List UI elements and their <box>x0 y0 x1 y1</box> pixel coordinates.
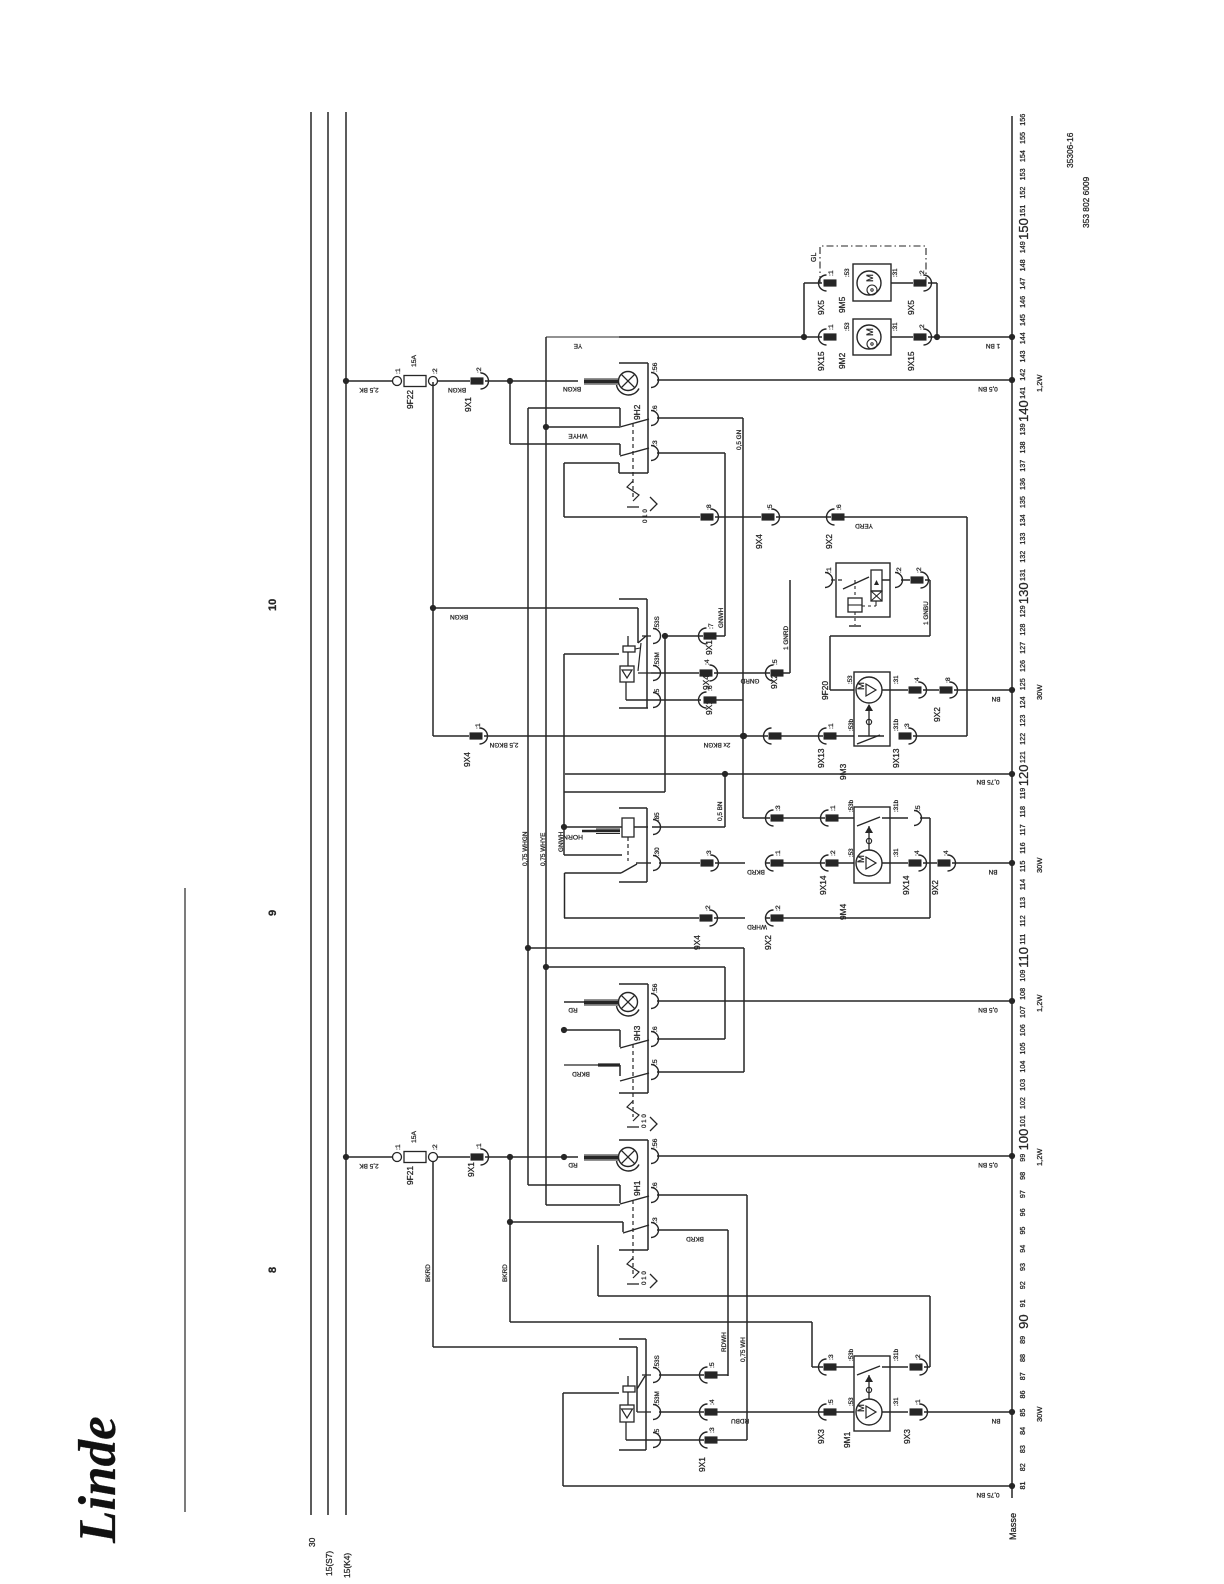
pin :5 row818 <box>914 811 922 826</box>
svg-text:9X1: 9X1 <box>463 397 473 412</box>
relay diode box <box>871 591 882 601</box>
svg-text:30: 30 <box>307 1537 317 1547</box>
wire to 9H2 lamp <box>510 380 578 382</box>
washer pump box bottom <box>620 1405 634 1422</box>
svg-text:1 GNBU: 1 GNBU <box>923 601 930 625</box>
connector 9X3:3 <box>824 1363 837 1370</box>
svg-text::53b: :53b <box>848 799 855 812</box>
row 792 <box>564 791 665 793</box>
pin :56 9H2 <box>651 373 659 388</box>
svg-text::1: :1 <box>395 1144 402 1150</box>
junction row774 <box>722 771 728 777</box>
wire 9H3:56 to masse <box>657 1000 1012 1002</box>
svg-text:153: 153 <box>1018 168 1027 180</box>
washer gnd row 654 <box>564 653 619 655</box>
svg-text:119: 119 <box>1018 788 1027 799</box>
svg-text:142: 142 <box>1018 369 1027 381</box>
svg-text:86: 86 <box>1018 1390 1027 1398</box>
wire bus to fuse 9F21 <box>346 1156 392 1158</box>
svg-text::8: :8 <box>945 677 952 683</box>
row 967 to 9H3:6 <box>546 966 725 968</box>
svg-text::2: :2 <box>432 1144 439 1150</box>
svg-text::56: :56 <box>652 1138 659 1148</box>
svg-text:122: 122 <box>1018 733 1027 745</box>
rail WHGN-left lower <box>564 873 566 918</box>
9M4 park contact arm <box>857 817 880 826</box>
riser BKRD from 9F21 <box>432 1162 434 1347</box>
svg-text:9X1: 9X1 <box>704 640 714 655</box>
svg-text::6: :6 <box>652 1026 659 1032</box>
svg-text::1: :1 <box>828 324 835 330</box>
svg-text:90: 90 <box>1016 1314 1031 1328</box>
connector 9X5:2 <box>914 279 927 286</box>
pin :5 bottom <box>653 1433 661 1448</box>
svg-text:9X13: 9X13 <box>891 748 901 768</box>
svg-text:124: 124 <box>1018 696 1027 708</box>
switch arm throw <box>638 643 641 671</box>
svg-text::31b: :31b <box>893 799 900 812</box>
svg-text:9X5: 9X5 <box>816 300 826 315</box>
pin :1 9F20 <box>825 573 833 588</box>
svg-text:9H3: 9H3 <box>632 1025 642 1041</box>
svg-text::31: :31 <box>893 848 900 857</box>
wire 9H2:6 right <box>657 417 743 419</box>
svg-text:128: 128 <box>1018 624 1027 636</box>
switch unit 9H1 bracket <box>619 1139 648 1141</box>
wiper motor 9M3 box <box>854 672 890 746</box>
connector 9X1:6 <box>704 696 717 703</box>
feed arm2 9H1 <box>510 1221 623 1223</box>
svg-text:9X5: 9X5 <box>906 300 916 315</box>
svg-text:121: 121 <box>1018 751 1027 763</box>
svg-text:BKGN: BKGN <box>563 385 581 392</box>
svg-text:2,5 BK: 2,5 BK <box>359 386 379 393</box>
svg-text::2: :2 <box>476 367 483 373</box>
svg-text:111: 111 <box>1018 934 1027 945</box>
svg-text:0 1 0: 0 1 0 <box>641 1114 648 1128</box>
svg-text:M: M <box>856 855 867 863</box>
svg-text:9X2: 9X2 <box>930 880 940 895</box>
junction 53S node <box>662 633 668 639</box>
svg-text:140: 140 <box>1016 400 1031 422</box>
svg-text:144: 144 <box>1018 332 1027 344</box>
riser 9M1:2 <box>929 1296 931 1367</box>
svg-text:RD: RD <box>568 1006 578 1013</box>
pin :3 9H1 <box>651 1223 659 1238</box>
junction on riser at row 736 <box>740 733 746 739</box>
junction WHYE tap <box>543 424 549 430</box>
connector 9X2:5 <box>771 669 784 676</box>
svg-text:0,5 BN: 0,5 BN <box>978 1161 998 1168</box>
connector 9X1:7 <box>704 632 717 639</box>
svg-text:2,5 BKGN: 2,5 BKGN <box>489 741 518 748</box>
connector 9X13:3 <box>899 732 912 739</box>
connector 9X2:8 <box>940 686 953 693</box>
svg-text:108: 108 <box>1018 988 1027 1000</box>
svg-text:91: 91 <box>1018 1299 1027 1307</box>
svg-text:RDWH: RDWH <box>721 1332 728 1352</box>
switch arm 53S bottom <box>637 1376 645 1389</box>
svg-text:125: 125 <box>1018 678 1027 690</box>
svg-text:1,2W: 1,2W <box>1035 374 1044 392</box>
svg-text:9X14: 9X14 <box>901 875 911 895</box>
9H2 contact arm 2 <box>620 448 649 456</box>
junction masse row 690 <box>1009 687 1015 693</box>
pin :5 9H3 <box>651 1065 659 1080</box>
junction rail arm1 9H3 <box>561 1027 567 1033</box>
svg-text::8: :8 <box>706 504 713 510</box>
svg-text::53: :53 <box>847 675 854 684</box>
svg-text:0,5 BN: 0,5 BN <box>717 801 724 821</box>
connector pin :3 row863 <box>701 859 714 866</box>
svg-text:151: 151 <box>1018 205 1027 217</box>
pull actuator rect <box>623 646 635 652</box>
connector 9X3:1 <box>910 1408 923 1415</box>
svg-text:353 802 6009: 353 802 6009 <box>1081 176 1091 228</box>
horn button unit bracket <box>619 807 647 809</box>
svg-text:150: 150 <box>1016 218 1031 240</box>
svg-text:133: 133 <box>1018 533 1027 545</box>
wiper motor 9M4 box <box>854 807 890 883</box>
row 517 left <box>564 516 700 518</box>
svg-text::3: :3 <box>828 1354 835 1360</box>
svg-text:9F21: 9F21 <box>405 1166 415 1185</box>
wire 9H1:6 <box>657 1194 747 1196</box>
rail segment row463-row517 <box>563 463 565 517</box>
wire 9H3:5 <box>657 1071 744 1073</box>
9H3 contact arm 2 <box>620 1073 649 1081</box>
motor 9M1 circle <box>856 1399 882 1425</box>
masse bus <box>1011 116 1013 1498</box>
connector 9X3:5 <box>824 1408 837 1415</box>
connector 9X3:2 <box>910 1363 923 1370</box>
wire 9F22 to 9X1:2 <box>437 380 470 382</box>
svg-text:156: 156 <box>1018 114 1027 126</box>
drop 1 GNBU <box>929 580 931 636</box>
riser to 9H3:6 <box>724 967 726 1039</box>
riser row517 to 9X13:3 <box>966 517 968 736</box>
svg-text::2: :2 <box>919 324 926 330</box>
relay timer element <box>871 570 882 591</box>
drop 9M5 to 9M2 row <box>936 283 938 337</box>
riser BKGN from 9F22 <box>432 382 434 736</box>
connector 9X1:1 <box>471 1153 484 1160</box>
svg-text:148: 148 <box>1018 259 1027 271</box>
svg-text:146: 146 <box>1018 296 1027 308</box>
svg-text:152: 152 <box>1018 187 1027 199</box>
junction 9M2/9M5 split <box>801 334 807 340</box>
wire washer gnd <box>563 1392 619 1394</box>
leader YE <box>546 336 619 338</box>
connector 9X1:2 <box>471 377 484 384</box>
svg-text::1: :1 <box>830 805 837 811</box>
connector pin :1 row863 <box>771 859 784 866</box>
svg-text::4: :4 <box>914 677 921 683</box>
connector 9X13:1 <box>824 732 837 739</box>
svg-text:1,2W: 1,2W <box>1035 994 1044 1012</box>
svg-text::31b: :31b <box>893 718 900 731</box>
connector 9X14:2 <box>826 859 839 866</box>
svg-text::2: :2 <box>830 850 837 856</box>
svg-text:93: 93 <box>1018 1263 1027 1271</box>
riser GNWH <box>724 453 726 636</box>
svg-text:9X4: 9X4 <box>754 534 764 549</box>
svg-text:9X2: 9X2 <box>769 674 779 689</box>
svg-text::5: :5 <box>654 1428 661 1434</box>
connector 9X1:3 <box>705 1436 718 1443</box>
svg-text::2: :2 <box>896 567 903 573</box>
pin :56 9H3 <box>651 994 659 1009</box>
svg-text::2: :2 <box>919 270 926 276</box>
wire 9H2:3 right <box>657 452 725 454</box>
svg-text:131: 131 <box>1018 569 1027 581</box>
junction BKGN row 608 <box>430 605 436 611</box>
9H3 contact arm 1 <box>620 1040 649 1048</box>
relay contact arm <box>843 577 869 589</box>
svg-text:127: 127 <box>1018 642 1027 654</box>
svg-text:YE: YE <box>574 342 583 349</box>
connector 9X14:4 <box>909 859 922 866</box>
svg-text::2: :2 <box>705 905 712 911</box>
connector 9X1:5 <box>705 1371 718 1378</box>
svg-text:0 1 0: 0 1 0 <box>642 509 649 523</box>
svg-text::53M: :53M <box>654 652 661 666</box>
connector 9X1:4 <box>705 1408 718 1415</box>
junction node after 9X1:2 <box>507 378 513 384</box>
svg-text:0,5 BN: 0,5 BN <box>978 385 998 392</box>
switch unit 9H3 bracket <box>619 983 648 985</box>
9H1 contact arm 1 <box>620 1196 649 1204</box>
svg-text:0,5 BN: 0,5 BN <box>978 1006 998 1013</box>
connector 9X2:6 <box>832 513 845 520</box>
pin :53S <box>653 629 661 644</box>
wire to horn actuator <box>564 826 622 828</box>
motor 9M5 circle <box>857 271 881 295</box>
9H3 actuator dashed link <box>632 1044 634 1117</box>
svg-text::5: :5 <box>828 1399 835 1405</box>
svg-text:GL: GL <box>811 253 818 262</box>
bus 15(S7) <box>327 112 329 1515</box>
svg-text:94: 94 <box>1018 1245 1027 1253</box>
svg-text::4: :4 <box>709 1399 716 1405</box>
9M1 park contact arm <box>857 1366 880 1375</box>
svg-text:9X3: 9X3 <box>816 1429 826 1444</box>
junction bus 15(K4) to 9F21 <box>343 1154 349 1160</box>
junction 9M5 return <box>934 334 940 340</box>
9H1 contact arm 2 <box>623 1225 649 1233</box>
svg-text::3: :3 <box>775 805 782 811</box>
row 818 from GN riser <box>743 817 770 819</box>
svg-text:9X15: 9X15 <box>906 351 916 371</box>
svg-text:HORN: HORN <box>563 833 583 840</box>
rail WHGN-left upper <box>563 654 565 855</box>
9H3 lamp lead <box>584 999 619 1001</box>
9H3 arm2 feed <box>564 1064 598 1066</box>
junction masse row 380 <box>1009 377 1015 383</box>
connector 9X2:2 <box>911 576 924 583</box>
pin :53M bottom <box>653 1405 661 1420</box>
row 948 to 9H3:5 <box>528 947 744 949</box>
svg-text:130: 130 <box>1016 582 1031 604</box>
svg-text:WHYE: WHYE <box>568 432 587 439</box>
svg-text::85: :85 <box>654 812 661 821</box>
horn dashed link <box>627 837 629 861</box>
wire 53M to 9X4:4 <box>651 672 699 674</box>
link <box>627 636 629 646</box>
svg-text:BKGN: BKGN <box>448 386 466 393</box>
connector 9X4:2 <box>700 914 713 921</box>
switch unit 9H2 bracket <box>619 362 648 364</box>
svg-text::6: :6 <box>707 685 714 691</box>
horn contact arm <box>621 864 637 873</box>
svg-text::2: :2 <box>915 1354 922 1360</box>
junction masse row 1486 <box>1009 1483 1015 1489</box>
pin :53M <box>653 666 661 681</box>
connector 9X15:2 <box>914 333 927 340</box>
drop to 9M3:53 <box>829 636 831 690</box>
drop 53S to row792 <box>664 637 666 792</box>
svg-text:9X14: 9X14 <box>818 875 828 895</box>
svg-text:0,75 WH: 0,75 WH <box>740 1337 747 1362</box>
feed arm1 9H1 a <box>528 1184 620 1186</box>
connector pin :3 row818 <box>771 814 784 821</box>
svg-text:123: 123 <box>1018 715 1027 727</box>
svg-text::53: :53 <box>844 268 851 277</box>
junction row 1222 <box>507 1219 513 1225</box>
junction masse row 1156 <box>1009 1153 1015 1159</box>
svg-text:9X15: 9X15 <box>816 351 826 371</box>
relay link dash <box>854 580 856 598</box>
9H1 lamp lead <box>584 1154 619 1156</box>
junction masse row 1001 <box>1009 998 1015 1004</box>
svg-text:9M1: 9M1 <box>842 1431 852 1448</box>
svg-text:0,75 WHGN: 0,75 WHGN <box>522 831 529 866</box>
svg-text:GNWH: GNWH <box>718 607 725 628</box>
svg-text:BKRD: BKRD <box>502 1264 509 1282</box>
svg-text:9X1: 9X1 <box>704 700 714 715</box>
svg-text::2: :2 <box>432 368 439 374</box>
junction rail to horn <box>561 824 567 830</box>
svg-text::31: :31 <box>893 1397 900 1406</box>
9H2 detent symbol <box>627 481 639 501</box>
svg-text::56: :56 <box>652 983 659 993</box>
svg-text:9X13: 9X13 <box>816 748 826 768</box>
svg-text:117: 117 <box>1018 824 1027 835</box>
riser right 9M4 <box>929 818 931 918</box>
svg-text:BKRD: BKRD <box>572 1070 590 1077</box>
wire 9H2:56 to masse <box>657 379 1012 381</box>
connector 9X2:4 <box>938 859 951 866</box>
svg-text::53: :53 <box>844 322 851 331</box>
svg-text:120: 120 <box>1016 764 1031 786</box>
park row inside 9M3 <box>858 735 884 737</box>
svg-text:106: 106 <box>1018 1024 1027 1036</box>
svg-text::31: :31 <box>893 675 900 684</box>
9H2 contact arm 1 <box>620 419 649 427</box>
svg-text:9F22: 9F22 <box>405 390 415 409</box>
svg-text:154: 154 <box>1018 150 1027 162</box>
svg-text:118: 118 <box>1018 806 1027 817</box>
svg-text:15A: 15A <box>411 1130 418 1143</box>
9M4 shaft link <box>868 826 870 850</box>
lamp 9H3 <box>619 993 638 1012</box>
connector 9X4:4 <box>700 669 713 676</box>
svg-text::1: :1 <box>476 1143 483 1149</box>
svg-text:110: 110 <box>1016 947 1031 968</box>
riser RDWH <box>727 1230 729 1376</box>
9H1 actuator dashed link <box>632 1200 634 1274</box>
pin :6 9H2 <box>651 411 659 426</box>
svg-text::53S: :53S <box>654 616 661 629</box>
svg-text:BKRD: BKRD <box>747 868 765 875</box>
leg to washer 53M <box>636 1347 638 1412</box>
svg-text::6: :6 <box>836 504 843 510</box>
svg-text:9H2: 9H2 <box>632 404 642 420</box>
svg-text:0,75 WHYE: 0,75 WHYE <box>540 833 547 866</box>
svg-text::53S: :53S <box>654 1355 661 1368</box>
svg-text:92: 92 <box>1018 1281 1027 1289</box>
stub row 463 <box>564 462 619 464</box>
connector 9X15:1 <box>824 333 837 340</box>
pin :30 horn <box>653 856 661 871</box>
link 0,5 BN to horn 85 <box>724 774 726 827</box>
svg-text:RDBU: RDBU <box>731 1417 749 1424</box>
junction rail/row948 <box>525 945 531 951</box>
svg-text:M: M <box>856 1404 867 1412</box>
row 1296 <box>598 1295 930 1297</box>
svg-text::3: :3 <box>709 1427 716 1433</box>
svg-text::31: :31 <box>892 268 899 277</box>
svg-text:1,2W: 1,2W <box>1035 1148 1044 1166</box>
svg-text:104: 104 <box>1018 1061 1027 1073</box>
svg-text:105: 105 <box>1018 1042 1027 1054</box>
riser 1 GNRD to relay <box>789 580 791 673</box>
svg-text:30W: 30W <box>1035 684 1044 700</box>
row 1322 <box>510 1321 812 1323</box>
pin :3 9H2 <box>651 446 659 461</box>
svg-text::31b: :31b <box>893 1348 900 1361</box>
svg-text:135: 135 <box>1018 496 1027 508</box>
svg-text:RD: RD <box>568 1161 578 1168</box>
svg-text:95: 95 <box>1018 1227 1027 1235</box>
connector 9X2:2 <box>771 914 784 921</box>
fuse 9F21 15A <box>393 1153 402 1162</box>
drop to bottom masse row <box>562 1393 564 1486</box>
leg row1296 <box>597 1245 599 1296</box>
svg-text:BKGN: BKGN <box>450 613 468 620</box>
wire into 9M3 <box>830 689 854 691</box>
connector pin :8 <box>701 513 714 520</box>
connector 9X4:1 <box>470 732 483 739</box>
row 855 stub <box>564 854 622 856</box>
svg-text:9X1: 9X1 <box>466 1162 476 1177</box>
motor 9M2 circle <box>857 325 881 349</box>
svg-text::3: :3 <box>652 440 659 446</box>
svg-text::5: :5 <box>772 659 779 665</box>
pin :5 <box>653 693 661 708</box>
svg-text:107: 107 <box>1018 1006 1027 1018</box>
motor 9M3 circle <box>856 677 882 703</box>
svg-text:BKRD: BKRD <box>686 1235 704 1242</box>
svg-text:15A: 15A <box>411 354 418 367</box>
junction masse row 863 <box>1009 860 1015 866</box>
svg-text:112: 112 <box>1018 915 1027 926</box>
connector pin :2 row736 <box>769 732 782 739</box>
svg-text:134: 134 <box>1018 514 1027 526</box>
svg-text::2: :2 <box>775 905 782 911</box>
row 774 masse return <box>565 773 1012 775</box>
svg-text:85: 85 <box>1018 1409 1027 1417</box>
